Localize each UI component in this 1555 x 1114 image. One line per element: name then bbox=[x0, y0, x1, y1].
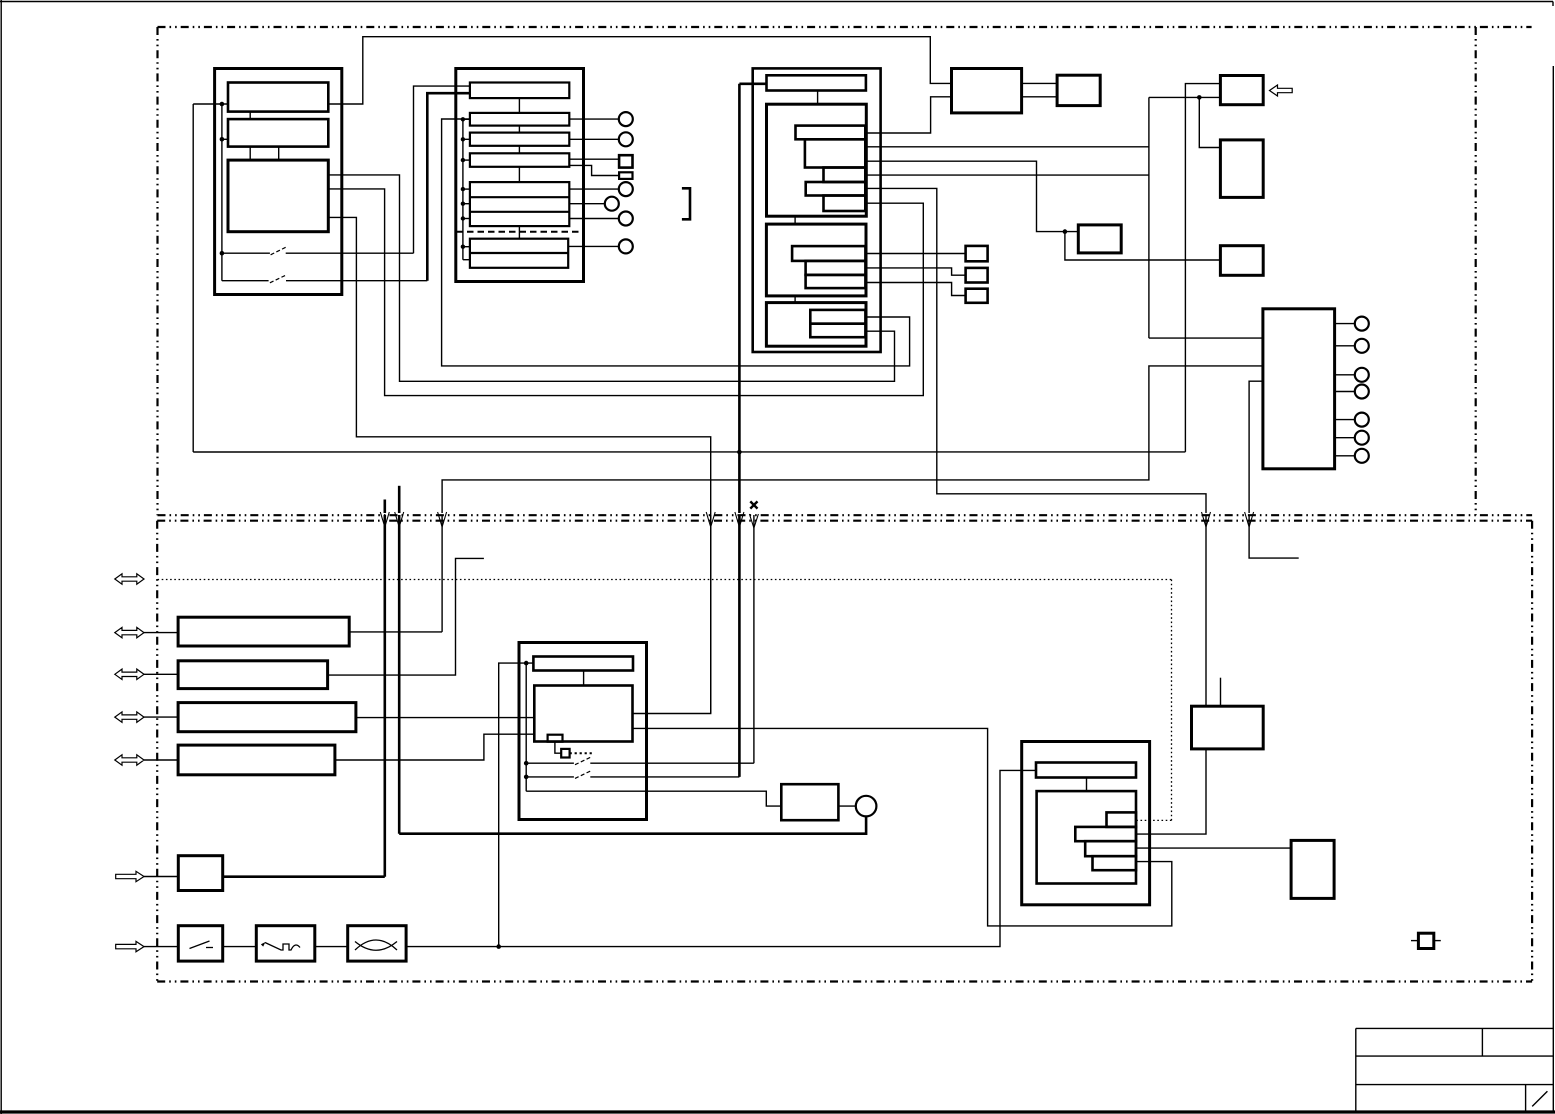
wire box3 out C bbox=[328, 217, 710, 713]
node junction rail top bbox=[220, 102, 225, 107]
wire A4 stub bbox=[144, 716, 178, 718]
block U2 row1 bbox=[470, 83, 569, 99]
wire A3 stub bbox=[144, 673, 178, 675]
wire G left rail bbox=[525, 663, 527, 791]
AC2 waveform symbol bbox=[262, 943, 300, 951]
switch S2 blade bbox=[270, 275, 287, 283]
test point TP1 bbox=[619, 112, 633, 126]
wire H.S3 to K bbox=[1136, 847, 1291, 849]
wire box B out2 to S bbox=[865, 161, 1078, 231]
wire R1 top entry riser bbox=[1185, 84, 1220, 452]
wire cut stub ring riser (thick) bbox=[398, 486, 401, 513]
upper dash-dot section border bbox=[158, 27, 1533, 515]
io arrow AC (right) bbox=[116, 941, 144, 951]
wire bar1 out bbox=[349, 631, 442, 633]
wire J1 out (thick) bbox=[223, 875, 385, 878]
wire A5 stub bbox=[144, 759, 178, 761]
bus bar B4 bbox=[178, 745, 335, 775]
wire box2-box3 stub a bbox=[249, 147, 251, 161]
wire A2 stub bbox=[144, 632, 178, 634]
dashed stub from tiny square bbox=[570, 752, 594, 754]
node G rail sw2 bbox=[524, 775, 529, 780]
wire U1 inner left rail bbox=[221, 104, 223, 281]
block U1 sub-box 1 bbox=[228, 83, 328, 112]
wire switch1 riser to block U2 bbox=[414, 86, 470, 253]
lamp circle bbox=[856, 796, 877, 817]
io arrow A1 (bidirectional) bbox=[115, 574, 144, 584]
block U3 top box T1 bbox=[767, 75, 866, 90]
wire S branch to R3 bbox=[1065, 232, 1221, 260]
wire rail R1 entry bbox=[1149, 96, 1221, 98]
block U2 row6 double bbox=[470, 239, 568, 268]
wire R2 branch bbox=[1199, 97, 1220, 147]
block R3 bbox=[1220, 246, 1263, 276]
U3 box D bbox=[806, 182, 866, 196]
block U1 outer enclosure (top-left) bbox=[215, 69, 342, 295]
wire U2 rail feed riser bbox=[442, 119, 910, 366]
io arrow A3 bbox=[115, 669, 144, 679]
wire G entry from AC riser bbox=[499, 663, 534, 947]
section-crossing arrowheads bbox=[380, 512, 1253, 528]
no-connect X marker bbox=[750, 501, 757, 508]
U3 box E bbox=[824, 196, 866, 212]
node junction y452 thick riser bbox=[737, 450, 742, 455]
wire CN1 entry mid bbox=[442, 366, 1263, 513]
wire row5 to TP3 bbox=[569, 188, 619, 190]
block K2 bbox=[1192, 706, 1264, 749]
wire C2-C3 stub bbox=[794, 216, 796, 224]
wire AC stub bbox=[144, 946, 178, 948]
io arrow A4 bbox=[115, 712, 144, 722]
block Q bbox=[1057, 75, 1100, 105]
U3 box B1 bbox=[810, 310, 865, 324]
switch G1 line left bbox=[526, 762, 574, 764]
wire P-Q link a bbox=[1022, 82, 1058, 84]
wire box C out to rail bbox=[865, 174, 1149, 176]
switch G2 line right bbox=[590, 776, 739, 778]
lower dash-dot section border bbox=[157, 521, 1532, 982]
block U3 outer enclosure bbox=[753, 68, 881, 352]
U3 box B bbox=[805, 139, 865, 167]
block G main box bbox=[534, 686, 632, 742]
component G tiny square bbox=[561, 749, 569, 758]
connector CN1 pins bbox=[1335, 324, 1355, 456]
block H outer enclosure bbox=[1022, 742, 1150, 905]
wire AC1-AC2 bbox=[223, 946, 257, 948]
U3 box M2 bbox=[806, 261, 866, 275]
wire bar2 out riser bbox=[328, 558, 484, 675]
wire rail to box2 bbox=[222, 138, 228, 140]
wire C3-C4 stub bbox=[794, 296, 796, 303]
wire CN1 low branch in bottom section bbox=[1249, 515, 1299, 558]
block AC2 bbox=[256, 926, 315, 961]
wire U3 left feed (thick riser) bbox=[739, 83, 766, 86]
switch S1 line right bbox=[286, 252, 414, 254]
node AC junction G riser bbox=[496, 944, 501, 949]
wire G main out2 bbox=[633, 728, 1172, 926]
wire M2 out to SB2 bbox=[865, 268, 965, 275]
block U2 row4 bbox=[470, 153, 569, 167]
wire long horizontal y452 bbox=[193, 451, 1185, 453]
wire cut stub J riser (thick) bbox=[383, 500, 386, 514]
U3 box M3 bbox=[806, 275, 866, 288]
switch G1 blade bbox=[575, 757, 592, 765]
block H main box bbox=[1037, 791, 1136, 883]
small box SB3 bbox=[966, 289, 988, 303]
block G outer enclosure bbox=[519, 643, 647, 820]
wire T1 stub bbox=[817, 91, 819, 105]
wire U2 left rail bbox=[462, 119, 464, 259]
switch G2 line left bbox=[526, 776, 574, 778]
switch S2 line left bbox=[222, 280, 269, 282]
wire box3 out B bbox=[328, 189, 923, 396]
wire row4 to pad P2 bbox=[569, 165, 619, 175]
U3 box A bbox=[796, 126, 866, 140]
H step box S3 bbox=[1085, 841, 1136, 856]
wire rail into CN1 bbox=[1149, 337, 1263, 339]
wire row3 to TP2 bbox=[569, 138, 619, 140]
io arrow A2 bbox=[115, 627, 144, 637]
test point TP2 bbox=[619, 132, 633, 146]
wire box1 right to top bus bbox=[328, 37, 951, 104]
block G top bar bbox=[533, 657, 633, 671]
wire CN1 entry low riser bbox=[1249, 381, 1263, 513]
block U2 outer enclosure bbox=[456, 69, 584, 282]
U3 box C bbox=[824, 168, 866, 183]
H step box S2 bbox=[1075, 827, 1136, 841]
block U1 sub-box 3 bbox=[228, 160, 328, 232]
test point TP6 bbox=[619, 239, 633, 253]
U3 box M1 bbox=[792, 246, 865, 261]
wire P-Q link b bbox=[1022, 96, 1058, 98]
wire M1 out to SB1 bbox=[865, 253, 965, 255]
wire G bar stub bbox=[583, 671, 585, 686]
node junction R2 branch bbox=[1197, 95, 1202, 100]
bracket marker bbox=[682, 188, 690, 219]
wire H bar stub bbox=[1086, 778, 1088, 792]
test point TP4 bbox=[605, 197, 619, 211]
wire box B out1 to rail bbox=[866, 146, 1149, 148]
node junction rail box2 bbox=[220, 137, 225, 142]
small box SB1 bbox=[966, 246, 988, 261]
wire left feed to box1 bbox=[193, 103, 228, 105]
block U3 container C4 bbox=[766, 303, 866, 347]
switch S1 blade bbox=[271, 246, 288, 255]
block J1 bbox=[178, 856, 222, 891]
pad P2 rect bbox=[619, 172, 632, 179]
wire box3 out A bbox=[328, 175, 894, 381]
wire row5 to TP5 bbox=[569, 218, 619, 220]
wire bar4 out jog bbox=[335, 734, 534, 760]
block U3 container C3 bbox=[766, 224, 866, 296]
connector CN1 body bbox=[1263, 309, 1335, 469]
U3 box B2 bbox=[810, 324, 865, 338]
arrow in (left-pointing outline) bbox=[1270, 85, 1293, 96]
wire H.S2 entry from riser bbox=[1136, 749, 1206, 834]
node G rail sw1 bbox=[524, 761, 529, 766]
wire row6 to TP6 bbox=[568, 245, 619, 247]
wire box2-box3 stub b bbox=[278, 147, 280, 161]
wire U2 row stubs bbox=[518, 98, 520, 239]
block U2 row5 triple bbox=[470, 182, 569, 226]
block U3 container C2 bbox=[767, 104, 867, 216]
component F1 fuse square bbox=[1418, 933, 1433, 948]
wire J stub bbox=[144, 876, 178, 878]
AC3 sine symbol bbox=[355, 940, 397, 950]
wire bar3 out bbox=[356, 717, 534, 719]
dashed separator in U2 bbox=[457, 231, 584, 233]
wire switch2 riser to block U2 (thick) bbox=[427, 93, 470, 281]
wire G rail out to M bbox=[526, 791, 781, 806]
wire box D out descending bbox=[865, 188, 1206, 513]
wire box A out to P bbox=[866, 97, 951, 133]
wire lamp return (thick) bbox=[399, 816, 866, 833]
wire K2 stub bbox=[1220, 678, 1222, 707]
AC1 switch symbol bbox=[190, 941, 210, 949]
block P bbox=[952, 69, 1022, 113]
small box SB2 bbox=[966, 268, 988, 283]
block AC3 bbox=[348, 926, 406, 961]
node G rail top bbox=[524, 661, 529, 666]
io arrow J (right) bbox=[116, 871, 144, 881]
wire M3 out to SB3 bbox=[865, 283, 965, 296]
switch S2 line right bbox=[286, 280, 427, 282]
block S bbox=[1078, 225, 1121, 253]
wire riser continuations below border bbox=[383, 515, 386, 877]
dotted signal line bbox=[158, 580, 1172, 821]
wire G sub stub bbox=[555, 742, 561, 754]
wire rail vertical upper bbox=[1148, 97, 1150, 338]
test point TP3 bbox=[619, 182, 633, 196]
wire long left vertical bbox=[192, 104, 194, 452]
wire row4 to pad P1 bbox=[569, 158, 619, 160]
wire F1 stubs bbox=[1411, 940, 1418, 942]
block K bbox=[1291, 840, 1334, 898]
bus bar B3 bbox=[178, 703, 356, 732]
connector CN1 pin circles bbox=[1355, 317, 1369, 463]
io arrow A5 bbox=[115, 755, 144, 765]
block M bbox=[781, 784, 838, 820]
wire row2 to test point TP1 bbox=[569, 118, 619, 120]
H step box S1 bbox=[1107, 812, 1137, 827]
H step box S4 bbox=[1093, 856, 1137, 870]
switch S1 line left bbox=[222, 252, 270, 254]
block U2 row3 bbox=[470, 133, 569, 146]
node rail dots U2 bbox=[461, 117, 465, 249]
node junction rail switch1 bbox=[220, 251, 225, 256]
switch G1 line right bbox=[590, 762, 754, 764]
switch G2 blade bbox=[575, 770, 592, 778]
block R2 bbox=[1220, 140, 1263, 198]
wire M to lamp bbox=[838, 805, 855, 807]
wire row5 to TP4 bbox=[569, 203, 605, 205]
block U1 sub-box 2 bbox=[228, 119, 328, 147]
wire AC out to H riser bbox=[406, 770, 1036, 946]
bus bar B1 bbox=[178, 617, 349, 646]
wire box1-box2 stub bbox=[249, 112, 251, 120]
block R1 bbox=[1220, 76, 1263, 105]
block U2 row2 bbox=[470, 113, 569, 126]
block AC1 bbox=[178, 926, 222, 961]
title block bbox=[1356, 1028, 1553, 1112]
wire AC2-AC3 bbox=[315, 946, 348, 948]
bus bar B2 bbox=[178, 661, 328, 689]
test point TP5 bbox=[619, 212, 633, 226]
block H top bar bbox=[1036, 763, 1136, 778]
pad P1 square bbox=[619, 155, 632, 167]
block G small sub-box bbox=[548, 735, 563, 742]
node junction S branch bbox=[1063, 229, 1068, 234]
